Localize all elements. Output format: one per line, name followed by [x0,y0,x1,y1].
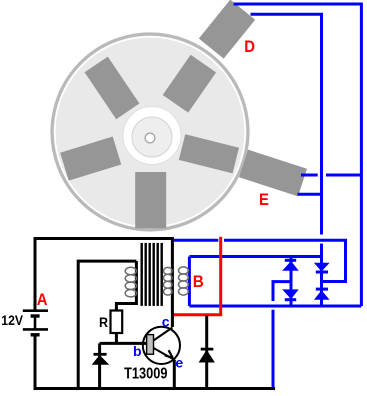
resistor R body [111,311,123,334]
svg-text:B: B [193,272,204,291]
wire: AC top horizontal to bridge right side [174,240,346,281]
diode D2 (collector clamp) [205,316,208,389]
diode D4 bottom-left of bridge [283,290,297,300]
svg-text:T13009: T13009 [124,365,167,382]
wire: feedback winding lead down to R [116,261,136,310]
wire: blade E lower to inner vertical [298,193,322,196]
transistor emitter line [154,348,175,360]
wire: blade E upper to outer vertical (hop over inner) [301,174,361,177]
svg-text:E: E [259,191,269,209]
svg-text:b: b [133,343,142,359]
feedback winding turns [125,267,136,297]
wire: right diode column vertical [320,244,323,306]
svg-text:A: A [37,291,48,309]
svg-text:e: e [175,354,183,370]
wire: secondary winding lead [188,257,191,307]
wire: emitter to ground rail [173,360,176,389]
ground bottom rail [34,387,276,390]
transistor emitter arrow [165,350,173,358]
fan disc rim [52,34,248,230]
svg-text:12V: 12V [1,312,23,328]
primary winding turns [164,267,173,295]
svg-text:c: c [162,313,170,329]
wire: left diode column vertical [290,257,293,307]
wire: blade D top to outer right vertical [234,4,362,306]
diode D5 top-right of bridge [315,263,329,272]
diode D3 top-left of bridge [283,260,297,270]
fan blade right [179,134,239,173]
fan blade top-right [163,55,216,113]
diode D1 (base clamp) [98,343,101,388]
transistor Q1 circle [143,327,180,364]
wire: base node horizontal [100,342,147,345]
wire: feedback winding top to ground leg [78,261,136,388]
wire: R bottom to base node [115,333,118,343]
secondary winding turns [179,267,189,295]
wire: battery - down to ground rail [34,336,37,389]
svg-text:R: R [99,315,109,331]
battery 12V [23,311,48,335]
detached blade D [199,0,255,59]
red wire: collector node probe [173,237,221,315]
transistor collector line [154,328,173,341]
diode D6 bottom-right of bridge [315,289,329,299]
wire: bridge output down to ground (hop over blue rail) [273,282,291,389]
transformer core [141,243,163,306]
fan blade left [60,137,121,181]
wire: blue bottom rail [189,305,361,308]
svg-text:D: D [244,38,255,56]
fan hub [123,107,181,165]
wire: battery + to transformer primary lead [35,239,172,328]
detached blade E [239,150,307,197]
fan blade bottom [135,172,166,228]
fan blade top-left [85,57,140,120]
transistor base bar [147,335,154,355]
wire: blade D lower to inner vertical [251,14,322,234]
wire: secondary top to bridge [189,255,321,258]
